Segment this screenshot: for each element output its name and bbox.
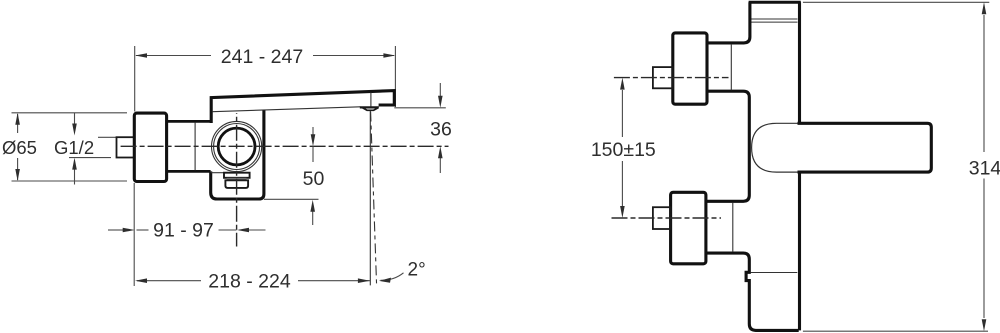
handle lever cap (thin front arc) — [752, 123, 777, 172]
svg-text:241 - 247: 241 - 247 — [221, 46, 303, 68]
spout inner outlet line — [370, 93, 372, 107]
lower inlet joint line — [732, 203, 734, 253]
label G1/2 with arrows — [69, 113, 117, 185]
dimension 36 — [394, 83, 446, 173]
diverter knob below body — [211, 172, 224, 174]
2 degree slanted axis (dashed) — [371, 112, 377, 286]
lower inlet centerline — [612, 217, 722, 219]
dimension 50 — [264, 127, 319, 225]
dimension 314 — [803, 2, 989, 331]
dimension 150±15 — [621, 90, 623, 206]
svg-text:91 - 97: 91 - 97 — [153, 219, 214, 241]
vertical reference line at spout outlet — [369, 111, 371, 285]
handle cap circles — [212, 121, 262, 171]
dimension 241-247 — [136, 46, 395, 107]
spout outline — [211, 91, 394, 123]
lower inlet connector — [653, 207, 671, 229]
svg-text:314: 314 — [969, 158, 1000, 180]
svg-text:Ø65: Ø65 — [2, 137, 37, 158]
upper inlet connector — [653, 67, 673, 88]
upper inlet joint line — [730, 44, 732, 90]
spout underside — [212, 107, 360, 112]
column top edge — [749, 1, 801, 4]
2 degree note with leader — [381, 273, 404, 281]
aerator outlet — [360, 106, 379, 108]
upper inlet escutcheon — [673, 33, 707, 104]
column right edge — [798, 2, 801, 122]
neck joint line — [194, 123, 196, 171]
bottom seam line — [751, 272, 798, 274]
main body (side view) — [211, 111, 264, 200]
dimension 218-224 — [137, 280, 370, 282]
svg-text:36: 36 — [430, 119, 452, 141]
vertical centerline through handle axis — [236, 113, 238, 247]
top seam double line — [751, 18, 798, 20]
upper inlet centerline — [614, 77, 729, 79]
svg-text:218 - 224: 218 - 224 — [208, 270, 291, 292]
handle lever — [798, 123, 932, 172]
escutcheon (side view) — [134, 113, 166, 181]
svg-text:2°: 2° — [408, 259, 426, 280]
svg-text:G1/2: G1/2 — [54, 137, 94, 158]
wall connector (side view) — [117, 137, 135, 157]
svg-text:50: 50 — [303, 168, 325, 190]
lower inlet escutcheon — [671, 192, 706, 263]
wall reference extension line — [133, 46, 136, 286]
neck between escutcheon and body — [167, 120, 212, 123]
dimension 91-97 — [108, 229, 266, 231]
horizontal centerline (side view) — [121, 145, 449, 147]
svg-text:150±15: 150±15 — [591, 139, 656, 161]
dimension Ø65 — [12, 113, 128, 181]
column left edge with inlet necks — [706, 2, 799, 330]
